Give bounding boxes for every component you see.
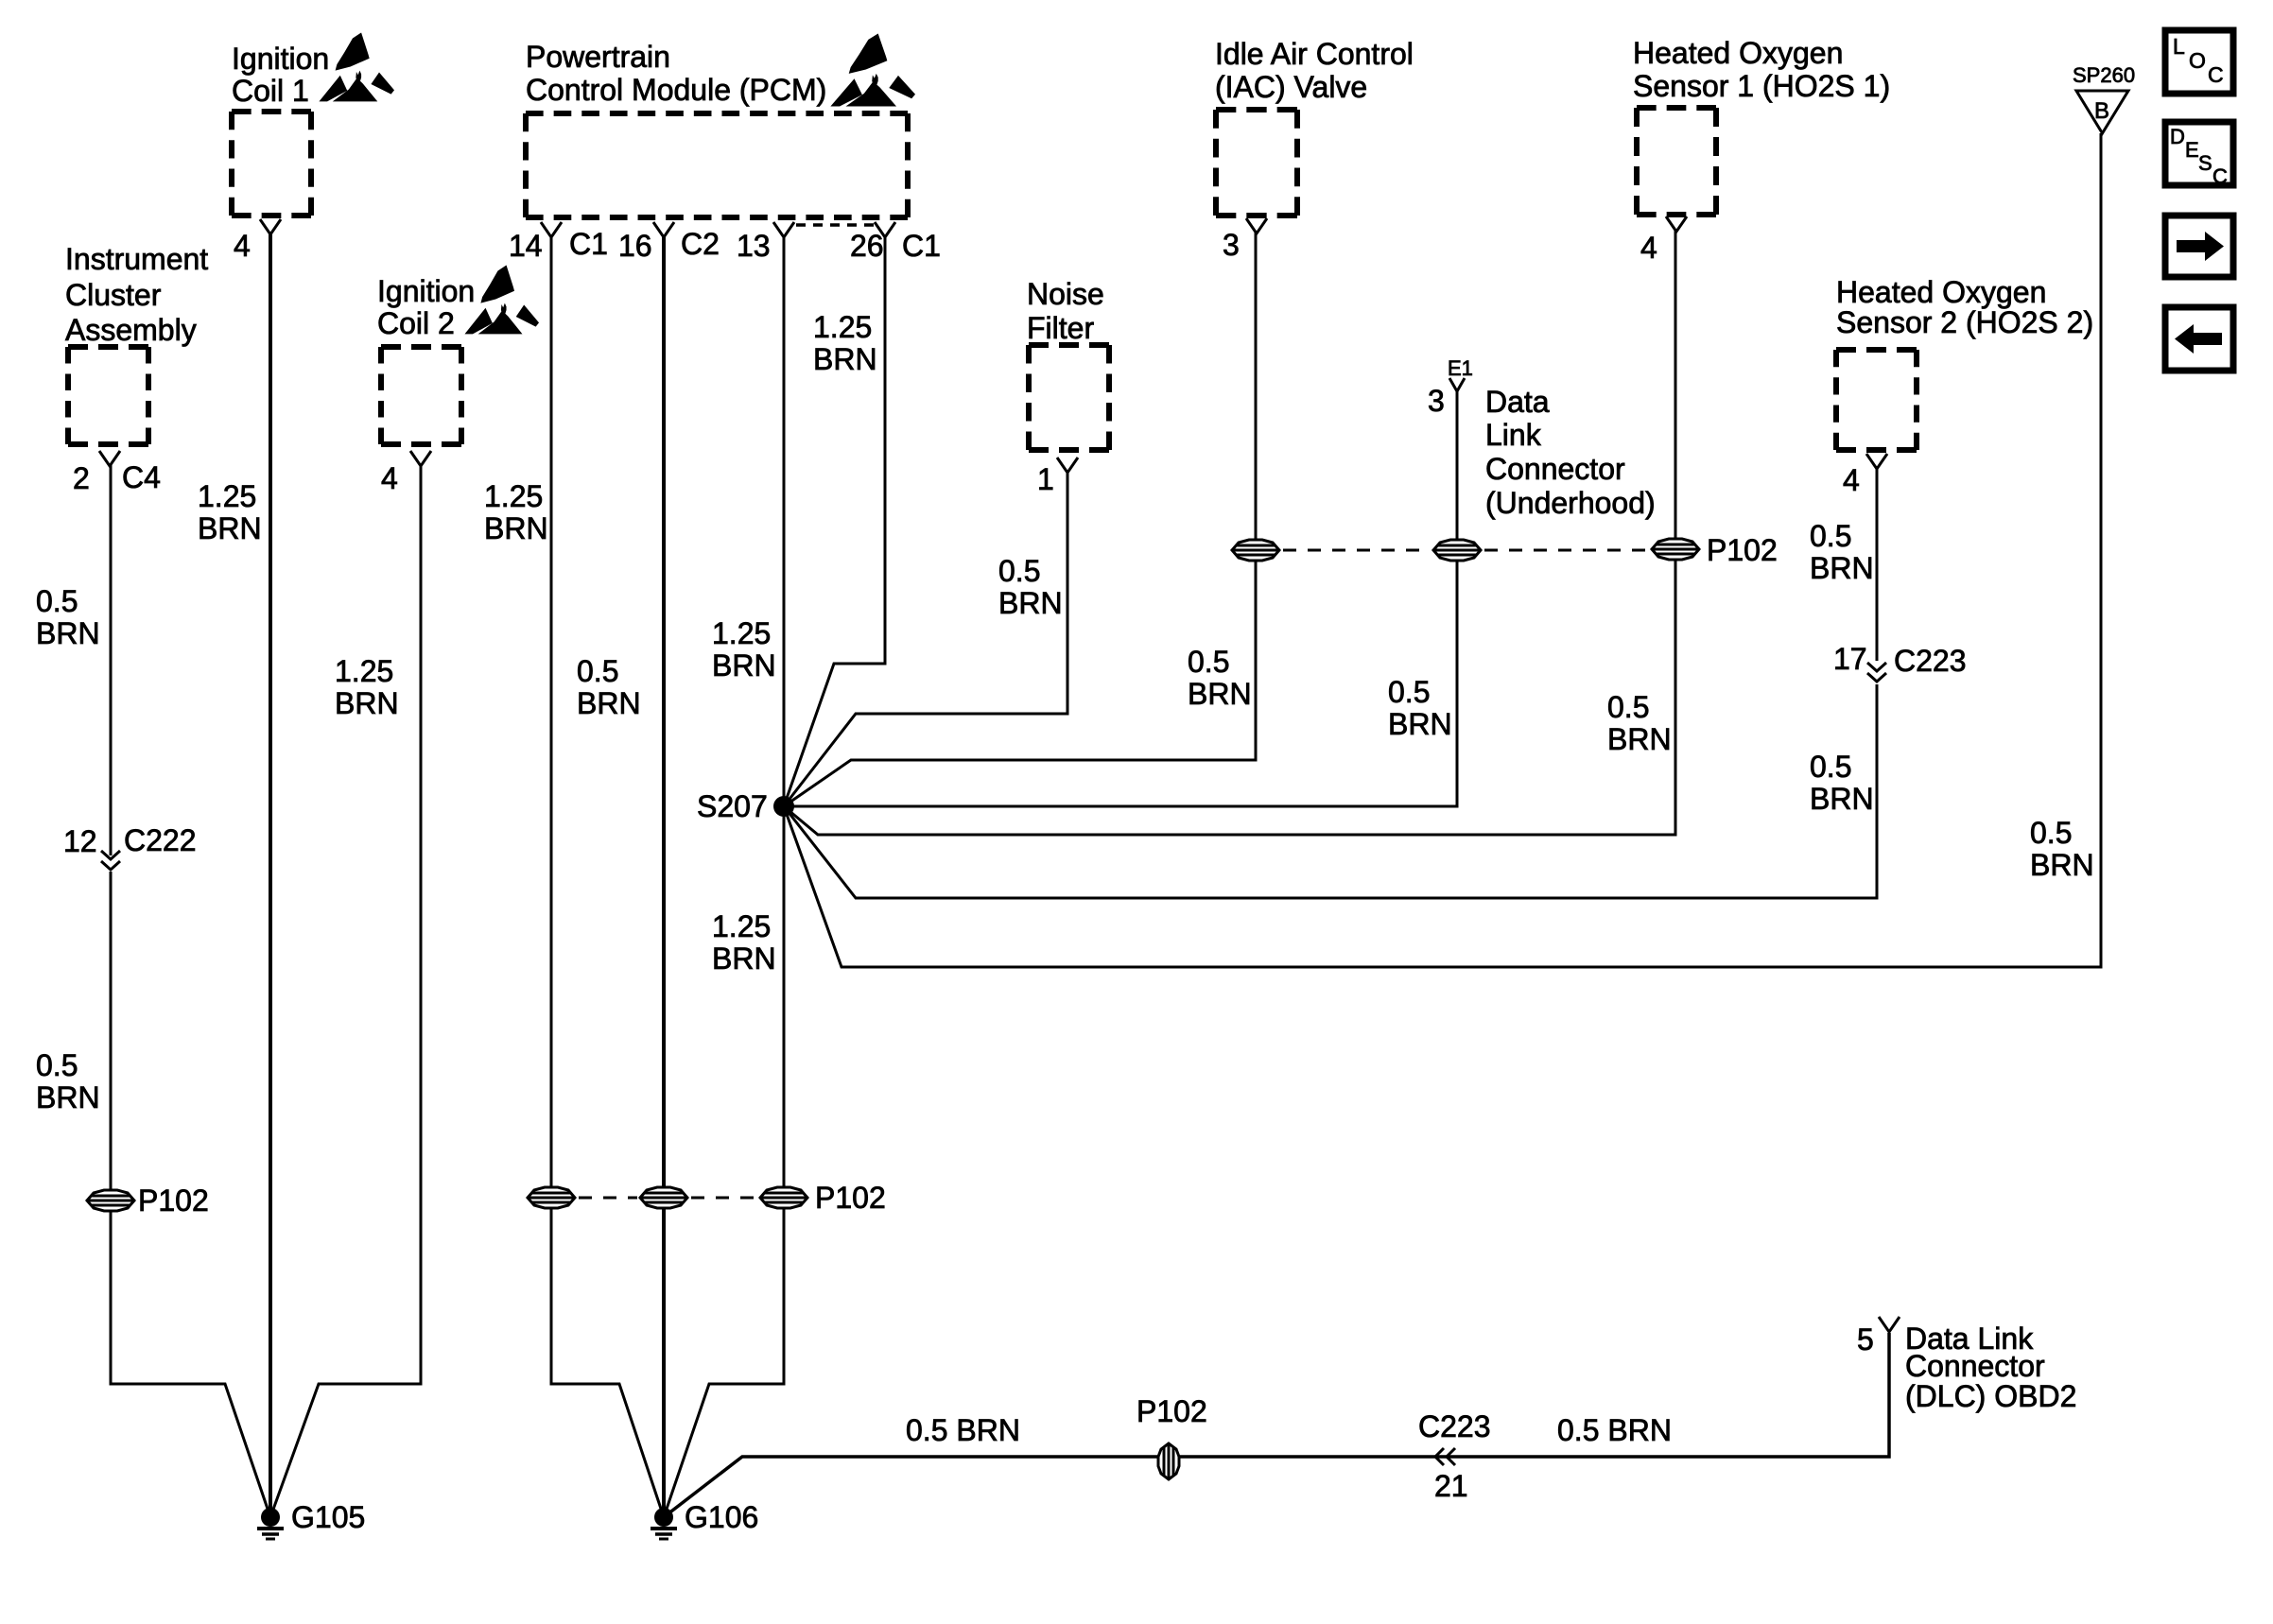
connector P102 on DLC underhood wire <box>1433 540 1481 561</box>
svg-text:13: 13 <box>737 229 771 263</box>
ground G106 <box>651 1508 677 1539</box>
svg-text:Connector: Connector <box>1905 1349 2045 1383</box>
PCM C1 connector dashes between pins 13 and 26 <box>796 223 879 227</box>
component Powertrain Control Module PCM (dashed box) <box>526 113 908 217</box>
svg-text:Sensor 2 (HO2S 2): Sensor 2 (HO2S 2) <box>1836 305 2093 339</box>
svg-text:Data: Data <box>1485 385 1550 419</box>
svg-text:C4: C4 <box>122 460 161 494</box>
svg-text:BRN: BRN <box>712 648 776 682</box>
component Ignition Coil 2 (dashed box) <box>381 347 461 444</box>
svg-text:3: 3 <box>1428 384 1445 418</box>
svg-text:12: 12 <box>63 824 97 858</box>
svg-text:Connector: Connector <box>1485 452 1625 486</box>
svg-text:C: C <box>2208 62 2224 87</box>
svg-text:(Underhood): (Underhood) <box>1485 486 1656 520</box>
pin fork, DLC OBD2 pin 5 <box>1879 1317 1900 1332</box>
ESD symbol (PCM) <box>830 34 915 107</box>
svg-text:B: B <box>2094 98 2109 124</box>
svg-text:G106: G106 <box>685 1500 758 1534</box>
pin fork, Noise Filter pin 1 <box>1057 458 1078 473</box>
svg-text:P102: P102 <box>138 1183 209 1218</box>
svg-text:0.5: 0.5 <box>1188 645 1229 679</box>
svg-text:C223: C223 <box>1418 1409 1491 1443</box>
svg-text:Heated Oxygen: Heated Oxygen <box>1836 275 2046 309</box>
wire PCM pin 16 C2 to G106 (0.5 BRN) <box>662 236 666 1517</box>
svg-text:Filter: Filter <box>1027 311 1094 345</box>
svg-text:0.5: 0.5 <box>1607 690 1649 724</box>
connector P102 on HO2S1 wire <box>1652 539 1699 560</box>
splice S207 <box>773 796 794 817</box>
svg-text:5: 5 <box>1857 1322 1874 1356</box>
svg-text:BRN: BRN <box>813 342 877 376</box>
wire IAC valve pin 3 to S207 (0.5 BRN) <box>784 232 1256 806</box>
svg-text:BRN: BRN <box>198 511 262 545</box>
svg-text:P102: P102 <box>1707 533 1778 567</box>
svg-text:BRN: BRN <box>335 686 399 720</box>
svg-text:Ignition: Ignition <box>232 42 329 76</box>
svg-text:BRN: BRN <box>484 511 548 545</box>
svg-text:Sensor 1 (HO2S 1): Sensor 1 (HO2S 1) <box>1633 69 1890 103</box>
svg-text:O: O <box>2189 48 2206 73</box>
svg-text:16: 16 <box>618 229 652 263</box>
wire PCM pin 14 C1 to G106 (1.25 BRN) <box>551 236 664 1517</box>
legend box left arrow <box>2165 307 2233 371</box>
pin fork, PCM pin 16 C2 <box>653 222 674 237</box>
svg-text:C1: C1 <box>569 227 608 261</box>
svg-text:BRN: BRN <box>1607 722 1672 756</box>
ESD symbol (Ignition Coil 2) <box>464 265 539 334</box>
wire instrument cluster pin 2 upper segment (0.5 BRN) <box>110 464 113 855</box>
svg-text:1.25: 1.25 <box>712 909 771 943</box>
svg-text:1: 1 <box>1037 462 1054 496</box>
wire HO2S2 via C223 to S207 (0.5 BRN) <box>784 684 1877 898</box>
svg-text:Idle Air Control: Idle Air Control <box>1215 37 1414 71</box>
svg-text:BRN: BRN <box>1810 782 1874 816</box>
svg-text:Assembly: Assembly <box>65 313 197 347</box>
pin fork, IAC valve pin 3 <box>1246 218 1267 233</box>
wire HO2S1 pin 4 to S207 (0.5 BRN) <box>784 229 1675 835</box>
svg-text:L: L <box>2173 34 2185 59</box>
svg-text:26: 26 <box>850 229 884 263</box>
wire PCM pin 26 C1 to S207 (1.25 BRN) <box>784 236 885 806</box>
svg-text:0.5: 0.5 <box>36 584 78 618</box>
ground G105 <box>257 1508 284 1539</box>
svg-text:Coil 2: Coil 2 <box>377 306 455 340</box>
component HO2S 1 (dashed box) <box>1637 108 1716 215</box>
svg-text:1.25: 1.25 <box>198 479 256 513</box>
component IAC Valve (dashed box) <box>1216 110 1297 216</box>
pin fork, Ignition Coil 1 pin 4 <box>260 219 281 234</box>
svg-text:(IAC) Valve: (IAC) Valve <box>1215 70 1367 104</box>
connector P102 on instrument cluster wire <box>87 1190 134 1211</box>
svg-text:1.25: 1.25 <box>335 654 393 688</box>
svg-text:S207: S207 <box>697 789 768 823</box>
svg-text:C223: C223 <box>1894 644 1967 678</box>
svg-text:4: 4 <box>1843 463 1860 497</box>
svg-text:0.5: 0.5 <box>2030 816 2072 850</box>
svg-text:BRN: BRN <box>577 686 641 720</box>
connector P102 on DLC OBD2 wire <box>1158 1443 1179 1479</box>
svg-text:(DLC) OBD2: (DLC) OBD2 <box>1905 1379 2076 1413</box>
svg-text:3: 3 <box>1223 228 1240 262</box>
wire SP260 B to S207 (0.5 BRN) <box>784 133 2101 967</box>
svg-text:0.5 BRN: 0.5 BRN <box>906 1413 1020 1447</box>
svg-text:0.5: 0.5 <box>1810 750 1851 784</box>
svg-text:2: 2 <box>73 461 90 495</box>
svg-text:Control Module (PCM): Control Module (PCM) <box>526 73 826 107</box>
legend box DESC <box>2165 122 2233 185</box>
svg-text:Cluster: Cluster <box>65 278 162 312</box>
splice pack SP260 (triangle B) <box>2076 91 2128 133</box>
legend box right arrow <box>2165 216 2233 277</box>
svg-text:0.5: 0.5 <box>36 1048 78 1082</box>
wire HO2S2 pin 4 upper segment (0.5 BRN) <box>1876 466 1879 661</box>
svg-text:0.5: 0.5 <box>1810 519 1851 553</box>
ESD symbol (Ignition Coil 1) <box>319 32 394 101</box>
wire DLC underhood pin 3 E1 to S207 (0.5 BRN) <box>784 391 1457 806</box>
connector P102 on PCM pin 13 wire <box>760 1187 807 1208</box>
svg-text:1.25: 1.25 <box>712 616 771 650</box>
svg-text:4: 4 <box>234 229 251 263</box>
svg-text:17: 17 <box>1833 642 1867 676</box>
svg-text:Link: Link <box>1485 418 1542 452</box>
component Noise Filter (dashed box) <box>1029 345 1109 450</box>
svg-text:E: E <box>2185 138 2199 162</box>
connector C223 (double chevron, HO2S2 wire) <box>1867 663 1886 682</box>
svg-text:C: C <box>2212 164 2228 188</box>
pin fork, Ignition Coil 2 pin 4 <box>410 451 431 466</box>
connector P102 on PCM pin 16 wire <box>640 1187 687 1208</box>
svg-text:BRN: BRN <box>36 1080 100 1114</box>
wire PCM pin 13 through S207 to G106 (1.25 BRN) <box>664 236 784 1517</box>
pin fork, HO2S1 pin 4 <box>1666 216 1687 232</box>
pin fork, PCM pin 14 C1 <box>541 222 562 237</box>
pin fork, DLC underhood pin 3 E1 <box>1449 378 1465 391</box>
svg-text:1.25: 1.25 <box>813 310 872 344</box>
svg-text:P102: P102 <box>815 1181 886 1215</box>
svg-text:21: 21 <box>1434 1469 1468 1503</box>
wire ignition coil 2 pin 4 to G105 (1.25 BRN) <box>270 464 421 1517</box>
pin fork, Instrument Cluster pin 2 C4 <box>99 451 120 466</box>
svg-text:BRN: BRN <box>2030 848 2094 882</box>
svg-text:BRN: BRN <box>36 616 100 650</box>
svg-text:SP260: SP260 <box>2073 63 2135 87</box>
dashed link between P102 connectors (row 2) <box>579 1197 637 1200</box>
svg-text:BRN: BRN <box>1388 707 1452 741</box>
wire ignition coil 1 pin 4 to G105 (1.25 BRN) <box>269 233 272 1517</box>
svg-text:Heated Oxygen: Heated Oxygen <box>1633 36 1843 70</box>
svg-text:0.5: 0.5 <box>998 554 1040 588</box>
svg-text:BRN: BRN <box>1810 551 1874 585</box>
svg-text:Ignition: Ignition <box>377 274 475 308</box>
wire noise filter pin 1 to S207 (0.5 BRN) <box>784 473 1067 806</box>
svg-text:Powertrain: Powertrain <box>526 40 670 74</box>
connector C223 on DLC OBD2 wire (left chevrons) <box>1435 1448 1455 1465</box>
dashed link between P102 connectors (row 1) <box>1283 549 1430 552</box>
svg-text:P102: P102 <box>1136 1394 1207 1428</box>
svg-text:Noise: Noise <box>1027 277 1104 311</box>
component Ignition Coil 1 (dashed box) <box>232 112 311 216</box>
connector P102 on IAC wire <box>1232 540 1279 561</box>
svg-text:0.5: 0.5 <box>577 654 618 688</box>
svg-text:C2: C2 <box>681 227 720 261</box>
svg-text:1.25: 1.25 <box>484 479 543 513</box>
wire DLC OBD2 pin 5 to G106 (0.5 BRN) <box>664 1333 1889 1517</box>
svg-text:4: 4 <box>381 461 398 495</box>
svg-text:D: D <box>2170 125 2185 148</box>
component Instrument Cluster Assembly (dashed box) <box>68 347 148 444</box>
svg-text:G105: G105 <box>291 1500 365 1534</box>
svg-text:0.5 BRN: 0.5 BRN <box>1557 1413 1672 1447</box>
legend box LOC <box>2165 30 2233 94</box>
svg-text:BRN: BRN <box>998 586 1063 620</box>
svg-text:4: 4 <box>1640 231 1657 265</box>
component HO2S 2 (dashed box) <box>1836 350 1917 450</box>
svg-text:Instrument: Instrument <box>65 242 208 276</box>
svg-text:BRN: BRN <box>1188 677 1252 711</box>
pin fork, PCM pin 26 C1 <box>875 222 895 237</box>
connector P102 on PCM pin 14 wire <box>528 1187 575 1208</box>
svg-text:S: S <box>2198 151 2212 175</box>
svg-text:C222: C222 <box>124 823 197 857</box>
svg-text:BRN: BRN <box>712 942 776 976</box>
svg-text:Coil 1: Coil 1 <box>232 74 309 108</box>
svg-text:E1: E1 <box>1448 356 1473 380</box>
svg-text:14: 14 <box>509 229 543 263</box>
svg-text:C1: C1 <box>902 229 941 263</box>
wire instrument cluster to G105 (0.5 BRN) <box>111 872 270 1517</box>
connector C222 (double chevron) <box>101 851 120 870</box>
pin fork, HO2S2 pin 4 <box>1866 454 1887 469</box>
svg-text:0.5: 0.5 <box>1388 675 1430 709</box>
pin fork, PCM pin 13 <box>773 222 794 237</box>
